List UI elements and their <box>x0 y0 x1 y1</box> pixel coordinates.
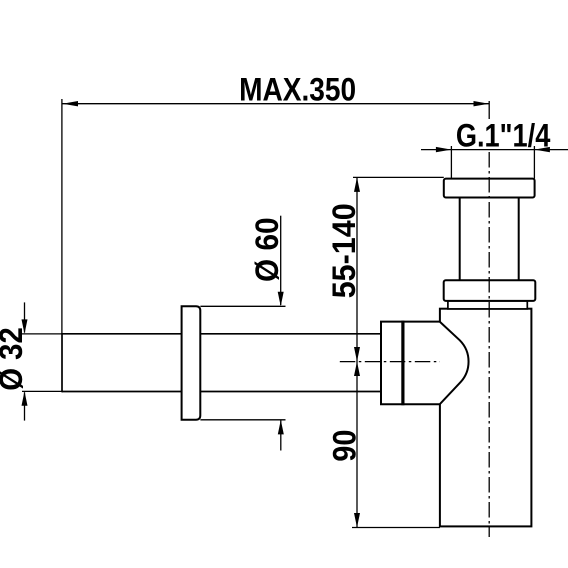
flange ring on pipe <box>182 306 201 420</box>
union nut <box>381 322 404 405</box>
dimension diameter 60 upper leader line <box>280 216 282 305</box>
svg-text:MAX.350: MAX.350 <box>239 72 356 108</box>
dimension G.1"1/4 line <box>421 149 568 151</box>
dimension 90 top arrow <box>354 362 360 377</box>
dimension 90 bottom arrow <box>354 513 360 528</box>
dimension diameter 32 upper leader line <box>24 302 26 332</box>
dimension diameter 32 lower leader line <box>24 392 26 420</box>
union nut thick right edge <box>401 321 404 406</box>
dimension diameter 32 lower extension line <box>22 390 62 392</box>
dimension 55-140 top extension line <box>353 176 444 178</box>
elbow boss outline <box>404 322 468 405</box>
dimension diameter 60 upper extension line <box>200 305 285 307</box>
dimension MAX.350 right extension line <box>488 101 490 119</box>
dimension G.1"1/4 right extension line <box>533 146 535 179</box>
dimension 55-140 bottom arrow <box>354 347 360 362</box>
top flange of vertical pipe <box>444 179 535 198</box>
bottom nut of vertical pipe <box>444 280 536 301</box>
step piece below nut <box>448 301 527 309</box>
dimension diameter 32 lower arrow <box>22 391 28 406</box>
svg-text:G.1"1/4: G.1"1/4 <box>456 117 551 153</box>
svg-text:55-140: 55-140 <box>326 203 362 298</box>
dimension MAX.350 right arrow <box>474 101 490 106</box>
svg-text:90: 90 <box>326 430 362 462</box>
vertical pipe left wall <box>459 198 461 281</box>
wire horizontal pipe bottom edge <box>62 391 381 393</box>
dimension diameter 60 lower leader line <box>280 421 282 451</box>
dimension MAX.350 line <box>63 103 490 105</box>
dimension G.1"1/4 left extension line <box>450 146 452 179</box>
dimension MAX.350 left arrow <box>63 101 79 106</box>
dimension diameter 60 lower arrow <box>278 420 284 435</box>
dimension 55-140 and 90 vertical line <box>356 177 358 527</box>
wire horizontal pipe top edge <box>62 333 381 335</box>
vertical pipe right wall <box>518 198 520 281</box>
dimension diameter 60 upper arrow <box>278 292 284 307</box>
vertical centerline dash-dot <box>488 152 490 537</box>
dimension 55-140 top arrow <box>354 177 360 192</box>
dimension diameter 32 upper extension line <box>22 333 62 335</box>
svg-text:Ø 60: Ø 60 <box>249 217 285 282</box>
dimension MAX.350 left extension line <box>61 99 63 334</box>
dimension diameter 60 lower extension line <box>200 419 285 421</box>
svg-text:Ø 32: Ø 32 <box>0 327 29 391</box>
dimension diameter 32 upper arrow <box>22 319 28 334</box>
dimension 90 bottom extension line <box>352 527 440 529</box>
body vertical cylinder <box>440 309 532 527</box>
wire horizontal pipe left cap <box>61 333 63 392</box>
dimension G.1"1/4 right arrow <box>534 147 550 152</box>
dimension G.1"1/4 left arrow <box>436 147 452 152</box>
pipe centerline horizontal dash-dot <box>340 361 440 363</box>
